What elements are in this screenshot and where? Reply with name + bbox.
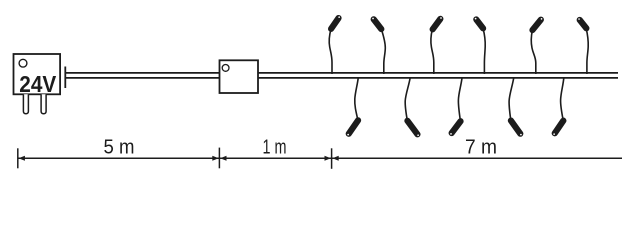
svg-text:1 m: 1 m	[263, 137, 287, 159]
lamp T3	[431, 17, 442, 74]
dimension line	[18, 148, 622, 169]
lamp B4	[509, 78, 522, 135]
lamp T5	[531, 18, 542, 74]
lamp T2	[372, 18, 385, 74]
svg-text:5 m: 5 m	[104, 137, 135, 159]
lamp T6	[578, 18, 588, 74]
svg-text:24V: 24V	[19, 71, 57, 97]
lamp T4	[475, 18, 485, 74]
controller box	[220, 60, 259, 93]
dimension arrows	[19, 156, 339, 161]
lamp T1	[329, 16, 340, 74]
lamp B2	[405, 78, 419, 136]
wire	[66, 73, 619, 78]
lamp B5	[553, 78, 564, 135]
lamp B3	[450, 78, 462, 135]
svg-text:7 m: 7 m	[465, 137, 497, 159]
power adapter 24V	[14, 54, 66, 114]
lamp B1	[347, 78, 358, 136]
